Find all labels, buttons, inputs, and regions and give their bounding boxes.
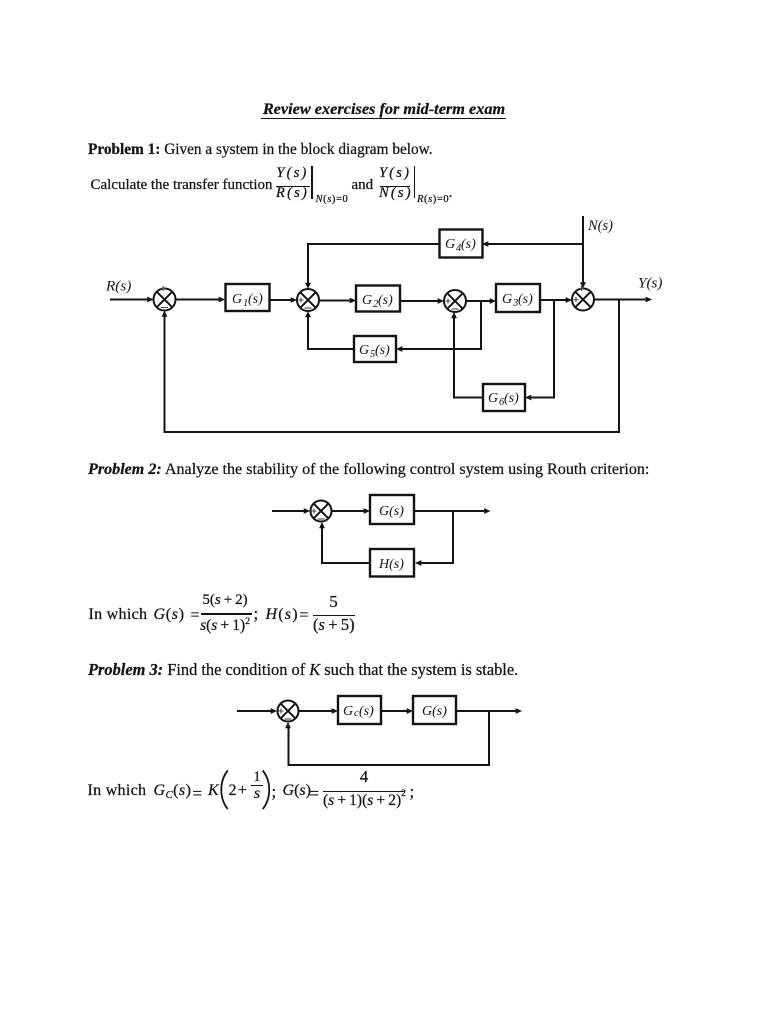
wire N to G4 input (487, 243, 583, 245)
wire G3 to S4 (540, 299, 567, 301)
open parenthesis (221, 771, 228, 810)
fraction bar (323, 791, 405, 793)
summing junction S1 (154, 289, 176, 311)
equals sign (193, 785, 203, 802)
evaluation bar 2 (414, 166, 416, 198)
block G6 (483, 384, 525, 411)
word and (352, 178, 374, 193)
close parenthesis (263, 771, 270, 810)
block H(s) (370, 549, 414, 577)
wire R(s) input (110, 299, 149, 301)
K (208, 783, 219, 799)
small fraction s denominator (251, 786, 263, 802)
wire G to output (414, 510, 486, 512)
fraction bar (313, 615, 355, 617)
fraction bar (201, 613, 252, 614)
problem 3 heading (88, 662, 518, 678)
trailing semicolon (410, 783, 415, 800)
fraction Y(s)/R(s) denominator (276, 186, 310, 201)
wire feedback to S6 (289, 711, 490, 765)
problem 3 formula: In which (88, 783, 147, 799)
problem 2 heading (88, 462, 649, 478)
equals sign (191, 608, 200, 624)
block G5 (354, 336, 396, 362)
wire outer feedback to S1 (165, 300, 620, 433)
wire S4 to Y output (594, 299, 647, 301)
small fraction bar (251, 785, 263, 786)
subscript R(s)=0 (417, 195, 449, 206)
summing junction S2 (297, 289, 319, 311)
fraction bar 2 (380, 186, 411, 187)
problem 1: Calculate the transfer function (91, 178, 273, 193)
fraction Y(s)/R(s) numerator (276, 166, 310, 181)
summing junction S4 (572, 289, 594, 311)
wire S3 to G3 (466, 300, 491, 302)
wire takeoff to G6 (530, 300, 554, 398)
semicolon (272, 783, 277, 800)
wire Gc to G (381, 710, 408, 712)
block G(s) second (413, 696, 456, 724)
fraction bar 1 (276, 186, 310, 187)
wire G1 to S2 (270, 299, 293, 301)
evaluation bar 1 (311, 166, 313, 199)
wire takeoff to G5 (401, 301, 481, 349)
H(s) (266, 607, 299, 623)
wire G2 to S3 (400, 300, 439, 302)
Gc(s) (154, 783, 192, 799)
block Gc(s) (338, 696, 381, 724)
2 + (229, 783, 247, 799)
fraction 5(s+2) numerator (201, 593, 249, 608)
block G(s) (370, 495, 414, 524)
wire N(s) into S4 (582, 216, 584, 284)
block G1 (226, 284, 270, 311)
wire G6 output to S3 (454, 318, 483, 398)
G(s) (283, 783, 311, 799)
wire S2 to G2 (319, 300, 351, 302)
fraction s(s+1)^2 denominator (200, 618, 250, 634)
wire input (272, 510, 305, 512)
G(s) (154, 607, 185, 623)
block G2 (356, 286, 400, 312)
block G4 (440, 230, 483, 258)
title underline (261, 118, 506, 120)
wire G4 output to S2 (308, 244, 440, 284)
summing junction S5 (311, 501, 332, 522)
title (0, 101, 768, 117)
wire H output to S5 (322, 528, 370, 564)
fraction 5 numerator (313, 593, 354, 610)
wire S1 to G1 (176, 299, 221, 301)
equals sign (300, 608, 309, 624)
trailing period (449, 186, 453, 201)
fraction Y(s)/N(s) numerator (379, 166, 410, 181)
problem 1 heading (88, 142, 433, 157)
fraction (s+1)(s+2)^2 denominator (323, 793, 399, 809)
wire input (237, 710, 272, 712)
fraction 4 numerator (324, 768, 404, 785)
problem 2 formula: In which (89, 607, 148, 623)
wire S6 to Gc (299, 710, 334, 712)
wire S5 to G (332, 510, 366, 512)
fraction Y(s)/N(s) denominator (379, 186, 410, 201)
wire G to output (456, 710, 517, 712)
subscript N(s)=0 (316, 195, 349, 206)
block G3 (496, 284, 540, 312)
fraction (s+5) denominator (313, 617, 354, 634)
summing junction S6 (278, 701, 299, 722)
semicolon (254, 605, 259, 622)
wire takeoff to H (420, 511, 453, 563)
wire G5 output to S2 (308, 317, 354, 350)
equals sign (310, 785, 320, 802)
small fraction 1/s numerator (251, 770, 263, 785)
summing junction S3 (444, 290, 466, 312)
